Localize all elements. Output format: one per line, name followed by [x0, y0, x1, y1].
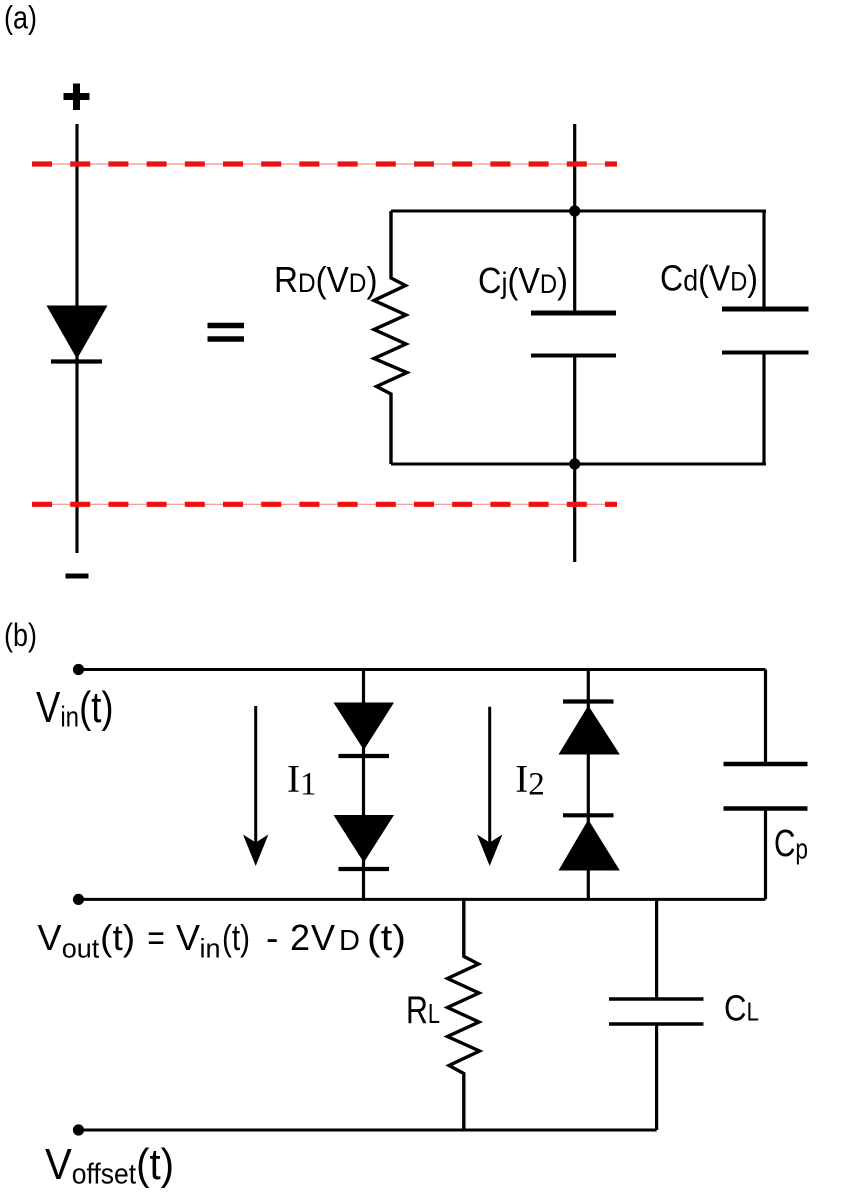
svg-text:out: out — [62, 934, 100, 964]
wire bottom of equivalent circuit — [391, 463, 766, 466]
capacitor Cj — [531, 313, 616, 356]
svg-text:-: - — [266, 917, 278, 958]
red dashed boundary bottom — [32, 503, 617, 505]
node Vin — [73, 664, 84, 675]
diode D (a) — [47, 306, 108, 360]
capacitor CL — [609, 999, 704, 1024]
svg-text:D: D — [339, 925, 360, 957]
diode D2 down — [334, 815, 395, 863]
red dashed boundary top — [32, 163, 617, 165]
wire top of equivalent circuit — [391, 210, 766, 213]
svg-text:in: in — [200, 934, 221, 964]
wire center branch upper — [573, 124, 576, 311]
resistor RL — [448, 899, 480, 1130]
current arrow I1 — [243, 706, 268, 866]
wire right branch upper — [762, 211, 765, 307]
wire bottom rail — [79, 1129, 657, 1132]
equals sign — [208, 326, 245, 340]
svg-text:(a): (a) — [4, 0, 37, 36]
current arrow I2 — [477, 707, 502, 866]
wire branch 2 — [587, 670, 590, 900]
svg-text:V: V — [311, 917, 335, 958]
wire right branch lower — [762, 355, 765, 465]
svg-text:(t): (t) — [222, 917, 250, 958]
svg-text:2: 2 — [290, 917, 310, 958]
wire center branch lower — [573, 358, 576, 563]
wire CL branch lower — [655, 1026, 658, 1131]
plus terminal — [64, 84, 90, 111]
diode D1 down — [334, 703, 395, 751]
node Voffset — [73, 1124, 84, 1135]
svg-text:=: = — [147, 917, 164, 958]
wire Cp branch upper — [764, 670, 767, 763]
diode D3 up — [563, 699, 614, 703]
wire branch 1 — [362, 670, 365, 900]
node bottom — [569, 458, 580, 469]
label Vout formula — [38, 917, 407, 964]
svg-text:(t): (t) — [100, 917, 135, 958]
node Vout — [73, 894, 84, 905]
resistor RD — [374, 211, 407, 464]
capacitor Cp — [724, 764, 808, 809]
svg-text:V: V — [38, 917, 62, 958]
wire diode lead — [75, 124, 78, 553]
wire CL branch upper — [655, 899, 658, 997]
svg-text:(b): (b) — [4, 617, 37, 653]
wire output rail — [79, 898, 766, 901]
wire Cp branch lower — [764, 811, 767, 900]
diode D4 up — [563, 813, 614, 817]
svg-text:(t): (t) — [367, 917, 406, 958]
wire top rail (b) — [79, 668, 766, 671]
capacitor Cd — [722, 309, 809, 353]
svg-text:V: V — [176, 917, 200, 958]
minus terminal — [66, 574, 89, 579]
node top — [569, 205, 580, 216]
